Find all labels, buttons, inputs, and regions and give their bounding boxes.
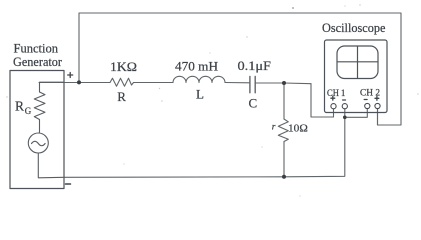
svg-text:r: r bbox=[272, 123, 276, 133]
svg-text:470 mH: 470 mH bbox=[175, 59, 218, 74]
svg-text:CH 1: CH 1 bbox=[327, 89, 346, 99]
svg-text:G: G bbox=[25, 106, 32, 116]
svg-text:0.1μF: 0.1μF bbox=[238, 58, 272, 73]
svg-text:Generator: Generator bbox=[13, 54, 63, 69]
svg-text:R: R bbox=[117, 89, 126, 104]
svg-text:CH 2: CH 2 bbox=[360, 89, 380, 99]
svg-text:C: C bbox=[249, 96, 258, 111]
svg-text:Oscilloscope: Oscilloscope bbox=[322, 20, 386, 35]
svg-text:1KΩ: 1KΩ bbox=[110, 59, 137, 74]
svg-text:R: R bbox=[15, 99, 24, 114]
svg-text:L: L bbox=[196, 86, 204, 101]
svg-text:10Ω: 10Ω bbox=[288, 123, 308, 135]
